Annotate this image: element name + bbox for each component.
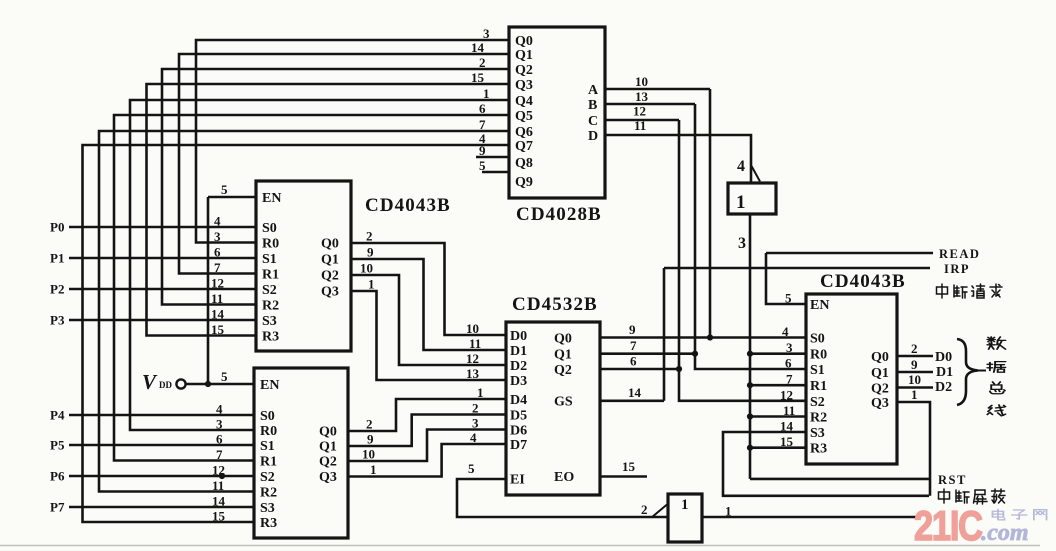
wire G2 output (pin 1) — [702, 516, 920, 519]
svg-text:S0: S0 — [262, 221, 277, 236]
inverter gate G1 (box symbol 1) — [728, 183, 776, 214]
svg-text:2: 2 — [366, 229, 373, 244]
svg-text:6: 6 — [216, 432, 223, 447]
svg-text:2: 2 — [641, 502, 648, 517]
label interrupt mask (Chinese) — [939, 489, 950, 503]
svg-text:READ: READ — [939, 247, 980, 261]
input P3 wire to S input — [69, 319, 256, 322]
svg-text:S1: S1 — [262, 252, 277, 267]
svg-text:Q0: Q0 — [515, 34, 533, 49]
svg-text:Q2: Q2 — [515, 63, 533, 78]
svg-text:Q3: Q3 — [319, 470, 337, 485]
svg-text:CD4028B: CD4028B — [516, 204, 602, 225]
svg-text:5: 5 — [468, 461, 475, 476]
svg-text:9: 9 — [629, 322, 636, 337]
wire RST line — [750, 478, 930, 481]
svg-text:3: 3 — [738, 235, 746, 252]
svg-text:R0: R0 — [260, 424, 277, 439]
wire lower latch Q3 (pin 1) to CD4532B D7 (pin 4) — [348, 444, 506, 477]
wire upper latch Q2 (pin 10) to CD4532B D2 (pin 12) — [351, 275, 506, 365]
svg-text:1: 1 — [911, 387, 918, 402]
svg-text:IRP: IRP — [944, 262, 970, 276]
label interrupt request (Chinese) — [937, 284, 948, 298]
svg-text:S3: S3 — [262, 314, 277, 329]
input P6 wire to S input — [69, 475, 254, 478]
net Q2-C-S2: CD4532B Q2 (pin 6) to CD4028B C (pin 12) and U5 S2 (pin 12) — [600, 368, 679, 371]
svg-text:4: 4 — [737, 158, 745, 175]
wire lower latch Q2 (pin 10) to CD4532B D6 (pin 3) — [348, 430, 506, 462]
svg-text:10: 10 — [362, 447, 375, 462]
svg-text:CD4532B: CD4532B — [512, 294, 598, 315]
svg-text:Q3: Q3 — [515, 78, 533, 93]
svg-text:2: 2 — [366, 417, 373, 432]
wire U5 Q1 (pin 9) to D1 — [897, 371, 933, 374]
svg-text:15: 15 — [211, 322, 225, 337]
svg-text:14: 14 — [471, 40, 485, 55]
svg-text:9: 9 — [367, 245, 374, 260]
IC U3 CD4028B BCD-to-decimal decoder — [509, 27, 605, 198]
svg-text:7: 7 — [630, 338, 637, 353]
svg-text:11: 11 — [212, 478, 224, 493]
svg-text:S2: S2 — [260, 470, 275, 485]
svg-text:R1: R1 — [260, 455, 277, 470]
input P4 wire to S input — [69, 414, 254, 417]
svg-text:D1: D1 — [510, 344, 527, 359]
svg-text:Q1: Q1 — [871, 366, 889, 381]
svg-text:12: 12 — [466, 351, 479, 366]
wire G1 output (pin 3) reset chain down to RST line — [749, 214, 752, 479]
svg-text:13: 13 — [635, 89, 649, 104]
svg-text:P3: P3 — [50, 313, 65, 328]
svg-text:Q1: Q1 — [515, 48, 533, 63]
svg-text:DD: DD — [159, 380, 172, 390]
svg-text:S3: S3 — [260, 501, 275, 516]
svg-text:Q0: Q0 — [321, 237, 339, 252]
svg-text:12: 12 — [212, 463, 225, 478]
svg-text:S2: S2 — [810, 395, 825, 410]
svg-text:Q0: Q0 — [871, 350, 889, 365]
svg-text:1: 1 — [477, 385, 484, 400]
svg-text:Q5: Q5 — [515, 109, 533, 124]
svg-text:P0: P0 — [50, 220, 64, 235]
svg-text:R2: R2 — [260, 486, 277, 501]
svg-text:15: 15 — [212, 509, 226, 524]
svg-text:3: 3 — [786, 340, 793, 355]
svg-text:11: 11 — [469, 336, 481, 351]
net Q0-A-S0: CD4532B Q0 (pin 9) to CD4028B A (pin 10) and U5 S0 (pin 4) — [600, 336, 806, 339]
svg-text:5: 5 — [221, 182, 228, 197]
svg-text:GS: GS — [554, 395, 573, 410]
logo Chinese electronics-net characters — [992, 509, 1004, 520]
svg-text:EN: EN — [810, 298, 829, 313]
svg-text:9: 9 — [911, 357, 918, 372]
wire CD4028B Q3 (pin 15) to R input, corner at (146.5,84) — [147, 84, 510, 336]
svg-text:7: 7 — [786, 372, 793, 387]
wire CD4028B Q7 (pin 4) to R input, corner at (82.5,145) — [83, 145, 510, 522]
svg-text:S0: S0 — [810, 332, 825, 347]
svg-text:R1: R1 — [262, 268, 279, 283]
svg-text:P7: P7 — [50, 500, 65, 515]
IC U2 CD4043B lower quad NOR R/S latch — [254, 368, 348, 538]
input P1 wire to S input — [69, 257, 256, 260]
svg-text:Q1: Q1 — [554, 348, 572, 363]
wire READ line to U5 EN (pin 5) — [766, 252, 933, 255]
svg-text:15: 15 — [780, 434, 794, 449]
svg-text:1: 1 — [736, 192, 746, 213]
svg-text:R0: R0 — [262, 237, 279, 252]
IC U4 CD4532B 8-bit priority encoder — [506, 322, 600, 495]
input P7 wire to S input — [69, 506, 254, 509]
svg-text:Q9: Q9 — [515, 175, 533, 190]
svg-text:P6: P6 — [50, 469, 65, 484]
wire CD4028B Q2 (pin 2) to R input, corner at (162,69) — [162, 69, 509, 305]
svg-text:5: 5 — [221, 369, 228, 384]
svg-text:R3: R3 — [810, 442, 827, 457]
svg-text:3: 3 — [216, 417, 223, 432]
input P0 wire to S input — [69, 226, 256, 229]
svg-text:CD4043B: CD4043B — [365, 195, 451, 216]
svg-text:Q7: Q7 — [515, 139, 533, 154]
svg-text:6: 6 — [630, 354, 637, 369]
input P2 wire to S input — [69, 288, 256, 291]
svg-text:S1: S1 — [260, 439, 275, 454]
wire U5 R1 (pin 7) — [750, 384, 806, 387]
svg-text:CD4043B: CD4043B — [820, 271, 906, 292]
svg-text:Q8: Q8 — [515, 156, 533, 171]
svg-text:P4: P4 — [50, 408, 65, 423]
wire Vdd to EN pins of both latches — [186, 383, 254, 386]
svg-text:S1: S1 — [810, 363, 825, 378]
svg-text:6: 6 — [785, 356, 792, 371]
svg-text:4: 4 — [782, 324, 789, 339]
svg-text:D1: D1 — [936, 365, 953, 380]
wire CD4028B Q9 stub (pin 5) — [482, 171, 509, 174]
svg-text:10: 10 — [466, 321, 479, 336]
wire U5 S3 (pin 14) to interrupt-mask line — [723, 432, 929, 496]
svg-text:3: 3 — [472, 416, 479, 431]
scan artifact faint baseline — [0, 545, 1040, 547]
svg-text:13: 13 — [466, 366, 480, 381]
svg-text:S2: S2 — [262, 283, 277, 298]
svg-text:Q6: Q6 — [515, 125, 533, 140]
svg-text:R2: R2 — [262, 299, 279, 314]
svg-text:15: 15 — [622, 459, 636, 474]
wire CD4028B Q8 stub (pin 9) — [476, 156, 509, 159]
svg-text:D3: D3 — [510, 374, 527, 389]
logo 21IC.com (watermark) — [914, 503, 982, 550]
svg-text:S3: S3 — [810, 426, 825, 441]
svg-text:10: 10 — [635, 74, 648, 89]
slash mark on G1 input — [752, 166, 761, 182]
wire U5 Q0 (pin 2) to D0 — [897, 355, 933, 358]
svg-text:1: 1 — [681, 497, 689, 513]
slash mark on G2 input — [652, 505, 668, 518]
svg-text:11: 11 — [634, 118, 646, 133]
svg-text:2: 2 — [911, 341, 918, 356]
svg-text:3: 3 — [214, 229, 221, 244]
svg-text:Q3: Q3 — [871, 396, 889, 411]
svg-text:EN: EN — [262, 191, 281, 206]
svg-text:Q4: Q4 — [515, 94, 533, 109]
junction dot on P6/S2 wire — [219, 473, 225, 479]
svg-text:Q0: Q0 — [319, 425, 337, 440]
svg-text:1: 1 — [483, 86, 490, 101]
net Q1-B-S1: CD4532B Q1 (pin 7) to CD4028B B (pin 13) and U5 S1 (pin 6) — [600, 352, 695, 355]
svg-text:Q2: Q2 — [554, 363, 572, 378]
svg-text:7: 7 — [479, 117, 486, 132]
svg-text:Q1: Q1 — [321, 253, 339, 268]
svg-text:12: 12 — [633, 104, 646, 119]
wire U5 R2 (pin 11) — [750, 415, 806, 418]
svg-text:A: A — [588, 83, 599, 98]
svg-text:Q1: Q1 — [319, 440, 337, 455]
svg-text:D5: D5 — [510, 409, 527, 424]
svg-text:B: B — [588, 98, 597, 113]
svg-text:14: 14 — [780, 419, 794, 434]
svg-text:11: 11 — [211, 291, 223, 306]
svg-text:D4: D4 — [510, 393, 527, 408]
wire CD4028B Q6 (pin 7) to R input, corner at (99,131) — [99, 131, 509, 492]
svg-text:1: 1 — [725, 504, 732, 519]
input P5 wire to S input — [69, 444, 254, 447]
svg-text:5: 5 — [785, 291, 792, 306]
svg-text:P5: P5 — [50, 438, 65, 453]
svg-text:Q2: Q2 — [319, 455, 337, 470]
svg-text:1: 1 — [370, 462, 377, 477]
svg-text:4: 4 — [214, 214, 221, 229]
svg-text:D0: D0 — [510, 329, 527, 344]
brace data bus — [957, 339, 978, 405]
svg-text:4: 4 — [216, 402, 223, 417]
wire U5 Q3 (pin 1) down to interrupt-mask line — [897, 402, 930, 496]
wire CD4028B Q5 (pin 6) to R input, corner at (114,115) — [114, 115, 509, 461]
svg-text:9: 9 — [367, 432, 374, 447]
svg-text:.com: .com — [981, 519, 1029, 546]
svg-text:R3: R3 — [260, 516, 277, 531]
wire CD4532B EO stub (pin 15) — [600, 475, 647, 478]
label data bus (Chinese, vertical) — [987, 337, 1005, 349]
svg-text:P2: P2 — [50, 282, 64, 297]
svg-text:S0: S0 — [260, 409, 275, 424]
wire CD4532B EI (pin 5) to inverter input — [457, 479, 668, 517]
svg-text:RST: RST — [938, 473, 967, 487]
svg-text:14: 14 — [211, 307, 225, 322]
IC U5 CD4043B right quad NOR R/S latch — [806, 294, 897, 464]
svg-text:14: 14 — [212, 494, 226, 509]
wire CD4028B Q4 (pin 1) to R input, corner at (130,100) — [130, 100, 509, 430]
svg-text:12: 12 — [780, 388, 793, 403]
wire CD4028B D (pin 11) to inverter G1 input (pin 4) — [605, 135, 751, 183]
wire upper latch Q1 (pin 9) to CD4532B D1 (pin 11) — [351, 259, 506, 350]
svg-text:P1: P1 — [50, 251, 64, 266]
svg-text:V: V — [142, 370, 158, 394]
svg-text:R0: R0 — [810, 348, 827, 363]
power Vdd terminal — [176, 379, 185, 388]
svg-text:1: 1 — [368, 277, 375, 292]
wire CD4028B Q1 (pin 14) to R input, corner at (179,54) — [179, 54, 509, 274]
wire lower latch Q0 (pin 2) to CD4532B D4 (pin 1) — [348, 399, 506, 431]
junction dot Vdd/EN — [205, 381, 211, 387]
svg-text:EO: EO — [554, 470, 574, 485]
svg-text:21IC: 21IC — [914, 503, 982, 550]
svg-text:12: 12 — [211, 276, 224, 291]
inverter gate G2 (box symbol 1) — [668, 494, 702, 542]
wire U5 Q2 (pin 10) to D2 — [897, 386, 933, 389]
svg-text:C: C — [588, 114, 598, 129]
svg-text:4: 4 — [470, 430, 477, 445]
IC U1 CD4043B upper quad NOR R/S latch — [256, 181, 351, 351]
svg-text:R1: R1 — [810, 379, 827, 394]
svg-text:D2: D2 — [510, 359, 527, 374]
wire upper latch Q3 (pin 1) to CD4532B D3 (pin 13) — [351, 291, 506, 380]
svg-text:14: 14 — [628, 385, 642, 400]
wire U5 R3 (pin 15) — [750, 446, 806, 449]
svg-text:3: 3 — [483, 26, 490, 41]
wire U5 R0 (pin 3) — [750, 352, 806, 355]
svg-text:7: 7 — [214, 260, 221, 275]
svg-text:EI: EI — [510, 473, 525, 488]
svg-text:2: 2 — [479, 55, 486, 70]
wire CD4028B Q0 (pin 3) to R input, corner at (196,40) — [196, 40, 509, 243]
svg-text:6: 6 — [214, 245, 221, 260]
svg-text:Q2: Q2 — [321, 269, 339, 284]
svg-text:11: 11 — [783, 403, 795, 418]
svg-text:2: 2 — [472, 401, 479, 416]
wire lower latch Q1 (pin 9) to CD4532B D5 (pin 2) — [348, 415, 506, 447]
svg-text:Q0: Q0 — [554, 332, 572, 347]
svg-text:10: 10 — [908, 372, 921, 387]
svg-text:15: 15 — [471, 70, 485, 85]
wire upper latch Q0 (pin 2) to CD4532B D0 (pin 10) — [351, 243, 506, 335]
svg-text:R3: R3 — [262, 330, 279, 345]
wire IRP line — [664, 267, 930, 270]
svg-text:D7: D7 — [510, 438, 527, 453]
svg-text:10: 10 — [360, 261, 373, 276]
svg-text:D0: D0 — [935, 350, 952, 365]
svg-text:R2: R2 — [810, 411, 827, 426]
svg-text:6: 6 — [479, 101, 486, 116]
svg-text:7: 7 — [216, 447, 223, 462]
svg-text:Q2: Q2 — [871, 382, 889, 397]
net GS-IRP: CD4532B GS (pin 14) up to IRP line — [600, 399, 664, 402]
svg-text:D6: D6 — [510, 424, 527, 439]
svg-text:D: D — [588, 129, 598, 144]
svg-text:Q3: Q3 — [321, 285, 339, 300]
svg-text:EN: EN — [260, 378, 279, 393]
svg-text:D2: D2 — [935, 380, 952, 395]
